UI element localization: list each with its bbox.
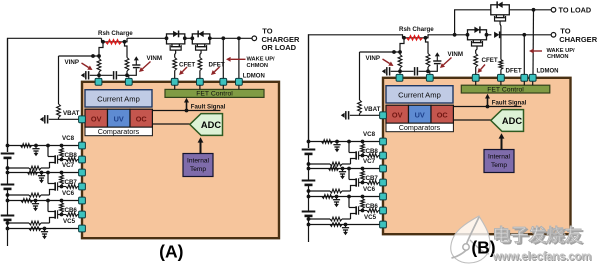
- resistor CB7 return: [29, 193, 41, 197]
- wire CB7 return row: [41, 194, 50, 196]
- svg-text:TO LOAD: TO LOAD: [559, 6, 592, 15]
- wire CHMON sense: [222, 38, 224, 78]
- arrow CFET pointer: [182, 67, 187, 72]
- svg-text:电子发烧友: 电子发烧友: [492, 224, 582, 245]
- svg-text:UV: UV: [114, 115, 124, 124]
- resistor Rsh (shunt): [106, 40, 122, 44]
- wire pin stub to FET control: [238, 85, 240, 89]
- capacitor VC7 filter: [41, 173, 43, 176]
- node sense tap: [91, 54, 95, 58]
- svg-text:LDMON: LDMON: [537, 69, 559, 75]
- svg-text:DFET: DFET: [209, 61, 225, 68]
- pin DFET: [197, 78, 204, 85]
- arrow VINP pointer: [82, 63, 89, 68]
- FET Control block B: [461, 85, 550, 93]
- node LDMON rail: [237, 36, 241, 40]
- svg-text:CB7: CB7: [65, 179, 78, 186]
- svg-text:CHMON: CHMON: [247, 63, 268, 69]
- battery cell B1: [1, 153, 15, 155]
- wire pin stub to FET control: [199, 85, 201, 89]
- IC U1 package (panel A): [82, 82, 279, 238]
- arrow VINM pointer: [142, 62, 150, 69]
- resistor VC8 series: [21, 144, 32, 148]
- resistor VC6 series: [21, 199, 33, 203]
- wire pin stub to FET control: [222, 85, 224, 89]
- DFET Q4 body diode: [497, 2, 502, 8]
- capacitor VC8 filter: [35, 146, 37, 149]
- transistor CB7: [54, 182, 56, 190]
- wire VINP pin stub: [98, 75, 100, 79]
- pin CFET: [171, 78, 178, 85]
- arrow wake up pointer B: [534, 50, 542, 52]
- node VC7 bus: [6, 171, 10, 175]
- svg-text:VC8: VC8: [62, 135, 75, 142]
- CFET Q3 body diode: [474, 27, 479, 33]
- svg-text:CHARGER: CHARGER: [559, 35, 598, 44]
- node VC8 bus: [6, 144, 10, 148]
- resistor DFET gate: [198, 58, 202, 71]
- wire VC7 row: [8, 172, 83, 174]
- wire main rail A: [8, 38, 102, 152]
- block Internal Temp: [183, 154, 213, 177]
- battery cell B2: [1, 184, 15, 186]
- pin LDMON B: [529, 74, 536, 81]
- pin VINP: [95, 78, 102, 85]
- panel A core circuit: [1, 30, 227, 246]
- arrow fault up: [186, 102, 188, 111]
- block Comparators strip: [85, 127, 152, 136]
- wire VC8 row: [8, 145, 83, 147]
- battery cell B3: [1, 215, 15, 217]
- capacitor VBAT bypass: [40, 117, 44, 122]
- svg-text:OC: OC: [136, 115, 148, 124]
- wire comparators to ADC: [152, 123, 189, 125]
- svg-text:Temp: Temp: [190, 166, 206, 173]
- node VC8 fet tap: [46, 144, 50, 148]
- svg-text:Internal: Internal: [187, 157, 210, 164]
- svg-text:CHMON: CHMON: [547, 54, 568, 60]
- DFET Q4 transistor: [495, 15, 497, 17]
- pin CHMON: [220, 78, 227, 85]
- node VINM pin junction: [125, 73, 129, 77]
- arrow temp to ADC: [200, 142, 202, 154]
- node VC7 cap tap: [40, 171, 44, 175]
- svg-text:FET Control: FET Control: [487, 86, 524, 93]
- resistor VBAT series: [57, 104, 61, 118]
- CFET Q1 loop: [167, 34, 185, 44]
- resistor VC5 series: [29, 227, 41, 231]
- node VC6 balance tap: [60, 199, 64, 203]
- capacitor VC6 filter: [35, 201, 37, 204]
- svg-text:VC7: VC7: [62, 162, 75, 169]
- wire sense tap line: [59, 55, 100, 57]
- transistor CB8: [54, 155, 56, 163]
- node Rsh left: [101, 40, 105, 44]
- svg-text:CB8: CB8: [65, 152, 78, 159]
- svg-text:LDMON: LDMON: [243, 74, 265, 80]
- wire pin stub to FET control B: [532, 81, 534, 85]
- pin CB8 left: [79, 156, 86, 163]
- capacitor VINM top with arrow: [133, 67, 140, 69]
- node VC5 cap tap: [43, 227, 47, 231]
- diode D1 series charger: [487, 34, 492, 36]
- wire LDMON sense B: [532, 10, 535, 75]
- pin CB7 left: [79, 183, 86, 190]
- capacitor sense input left: [81, 73, 85, 78]
- wire fault signal: [152, 110, 220, 112]
- wire sense filter line: [90, 74, 113, 76]
- node VC6 cap tap: [34, 199, 38, 203]
- svg-text:WAKE UP/: WAKE UP/: [247, 56, 276, 62]
- DFET Q2 loop: [192, 34, 210, 44]
- node fault arrow base: [185, 109, 189, 113]
- node VC6 bus: [6, 199, 10, 203]
- svg-text:ADC: ADC: [201, 120, 221, 130]
- resistor VINP series: [97, 59, 101, 73]
- pin CB6 left: [79, 211, 86, 218]
- node VINP pin junction: [97, 73, 101, 77]
- svg-text:CFET: CFET: [482, 57, 498, 64]
- CFET Q3 loop: [468, 30, 487, 40]
- transistor CB6: [54, 210, 56, 218]
- node Rsh right: [123, 40, 127, 44]
- wire VINM pin stub: [128, 75, 130, 79]
- wire DFET gate B: [499, 21, 502, 60]
- wire VINM drop from shunt right: [125, 42, 128, 58]
- node loop3 right: [485, 33, 489, 37]
- svg-text:CB6: CB6: [65, 207, 78, 214]
- svg-text:Rsh Charge: Rsh Charge: [98, 30, 133, 37]
- svg-text:www.elecfans.com: www.elecfans.com: [492, 251, 591, 263]
- CFET Q1 body diode: [173, 31, 178, 37]
- arrow DFET pointer: [214, 67, 219, 72]
- comparator UV: [108, 109, 131, 127]
- pin VC5 left: [79, 225, 86, 232]
- DFET Q4 loop: [491, 5, 510, 15]
- resistor CB6 gate: [66, 213, 78, 217]
- svg-text:OV: OV: [91, 115, 102, 124]
- wire pin stub to FET control B: [500, 81, 502, 85]
- block Current Amp: [85, 90, 152, 107]
- svg-text:(A): (A): [159, 242, 183, 262]
- node VC8 cap tap: [34, 144, 38, 148]
- terminal to charger: [551, 33, 556, 38]
- resistor CB8 balance: [60, 148, 64, 158]
- wire battery stack bus: [7, 38, 9, 152]
- op-amp ADC: [190, 114, 223, 136]
- wire pin stub to FET control B: [475, 81, 477, 85]
- resistor VC7 series: [28, 171, 38, 175]
- node CB7 gate: [60, 185, 64, 189]
- svg-text:OR LOAD: OR LOAD: [262, 43, 297, 52]
- comparator OC: [130, 109, 152, 127]
- node loop2 left: [190, 36, 194, 40]
- pin VINM: [125, 78, 132, 85]
- DFET Q2 transistor: [196, 44, 198, 46]
- capacitor sense differential: [113, 71, 115, 79]
- CFET Q1 transistor: [171, 44, 173, 46]
- wire pin stub to FET control: [174, 85, 176, 89]
- terminal to load: [551, 8, 556, 13]
- wire pin stub to FET control B: [523, 81, 525, 85]
- wire DFET gate: [200, 50, 201, 57]
- svg-text:VINM: VINM: [147, 55, 162, 62]
- wire CHMON sense B: [523, 35, 525, 75]
- IC U2 package (panel B): [383, 78, 571, 234]
- resistor CFET gate B: [474, 54, 478, 68]
- node VINP top: [97, 54, 101, 58]
- node loop2 right: [208, 36, 212, 40]
- watermark leaf logo: [451, 216, 490, 263]
- svg-text:DFET: DFET: [506, 68, 522, 75]
- wire CFET gate B: [476, 46, 477, 54]
- node CB6 return bus: [6, 221, 10, 225]
- node loop3 left: [466, 33, 470, 37]
- wire CB8 return row: [41, 167, 50, 169]
- capacitor VC5 filter: [44, 229, 46, 232]
- svg-text:VC6: VC6: [62, 190, 75, 197]
- resistor CB8 gate: [66, 158, 78, 162]
- node VC7 balance tap: [60, 171, 64, 175]
- pin VC7 left: [79, 169, 86, 176]
- resistor VINM series: [125, 58, 129, 72]
- svg-text:VINP: VINP: [65, 59, 79, 66]
- svg-text:FET Control: FET Control: [196, 91, 233, 98]
- resistor CB6 balance: [60, 203, 64, 213]
- node rail branch B: [453, 33, 457, 37]
- node CHMON rail: [221, 36, 225, 40]
- node VC8 balance tap: [60, 144, 64, 148]
- terminal pack A: [252, 36, 257, 41]
- wire LDMON sense: [238, 38, 240, 78]
- node CB7 return bus: [6, 193, 10, 197]
- wire VBAT sense branch: [58, 56, 60, 104]
- node CB8 return bus: [6, 166, 10, 170]
- panel B core circuit (duplicate): [302, 26, 528, 242]
- comparator OV: [85, 109, 108, 127]
- DFET Q2 body diode: [198, 31, 203, 37]
- node VC5 bus: [6, 227, 10, 231]
- svg-text:Current Amp: Current Amp: [97, 95, 140, 104]
- wire rail dip segment: [102, 38, 128, 42]
- resistor CB7 balance: [60, 175, 64, 185]
- wire VINP jog from shunt left: [99, 42, 103, 59]
- node loop1 right: [183, 36, 187, 40]
- svg-text:WAKE UP/: WAKE UP/: [547, 48, 576, 54]
- wire VC6 row: [8, 200, 83, 202]
- resistor CB8 return: [29, 166, 41, 170]
- node VC6 fet tap: [46, 199, 50, 203]
- wire main rail B charger row: [309, 35, 403, 148]
- pin VC8 left: [79, 142, 86, 149]
- node VC7 fet tap: [46, 171, 50, 175]
- resistor DFET gate B: [499, 60, 503, 70]
- svg-text:VBAT: VBAT: [63, 110, 80, 117]
- svg-text:Comparators: Comparators: [98, 127, 140, 136]
- node LDMON rail B: [532, 8, 536, 12]
- node CB6 gate: [60, 213, 64, 217]
- node CB8 gate: [60, 158, 64, 162]
- arrow CFET pointer B: [481, 65, 486, 70]
- svg-text:VC5: VC5: [63, 218, 76, 225]
- CFET Q3 transistor: [472, 40, 474, 42]
- arrow wake up pointer: [231, 58, 246, 60]
- wire VC5 row: [8, 228, 83, 230]
- svg-text:Fault Signal: Fault Signal: [191, 104, 226, 111]
- pin VBAT left: [79, 116, 86, 123]
- resistor CB6 return: [29, 221, 41, 225]
- pin LDMON: [236, 78, 243, 85]
- wire riser to load rail: [455, 10, 491, 35]
- wire CB6 return row: [41, 222, 50, 224]
- svg-text:TO: TO: [262, 26, 272, 35]
- FET Control block A: [165, 89, 264, 97]
- node charger monitor tap: [522, 33, 526, 37]
- pin VC6 left: [79, 197, 86, 204]
- node loop1 left: [165, 36, 169, 40]
- resistor CB7 gate: [66, 185, 78, 189]
- wire CFET gate: [174, 50, 177, 57]
- resistor CFET gate: [173, 58, 177, 71]
